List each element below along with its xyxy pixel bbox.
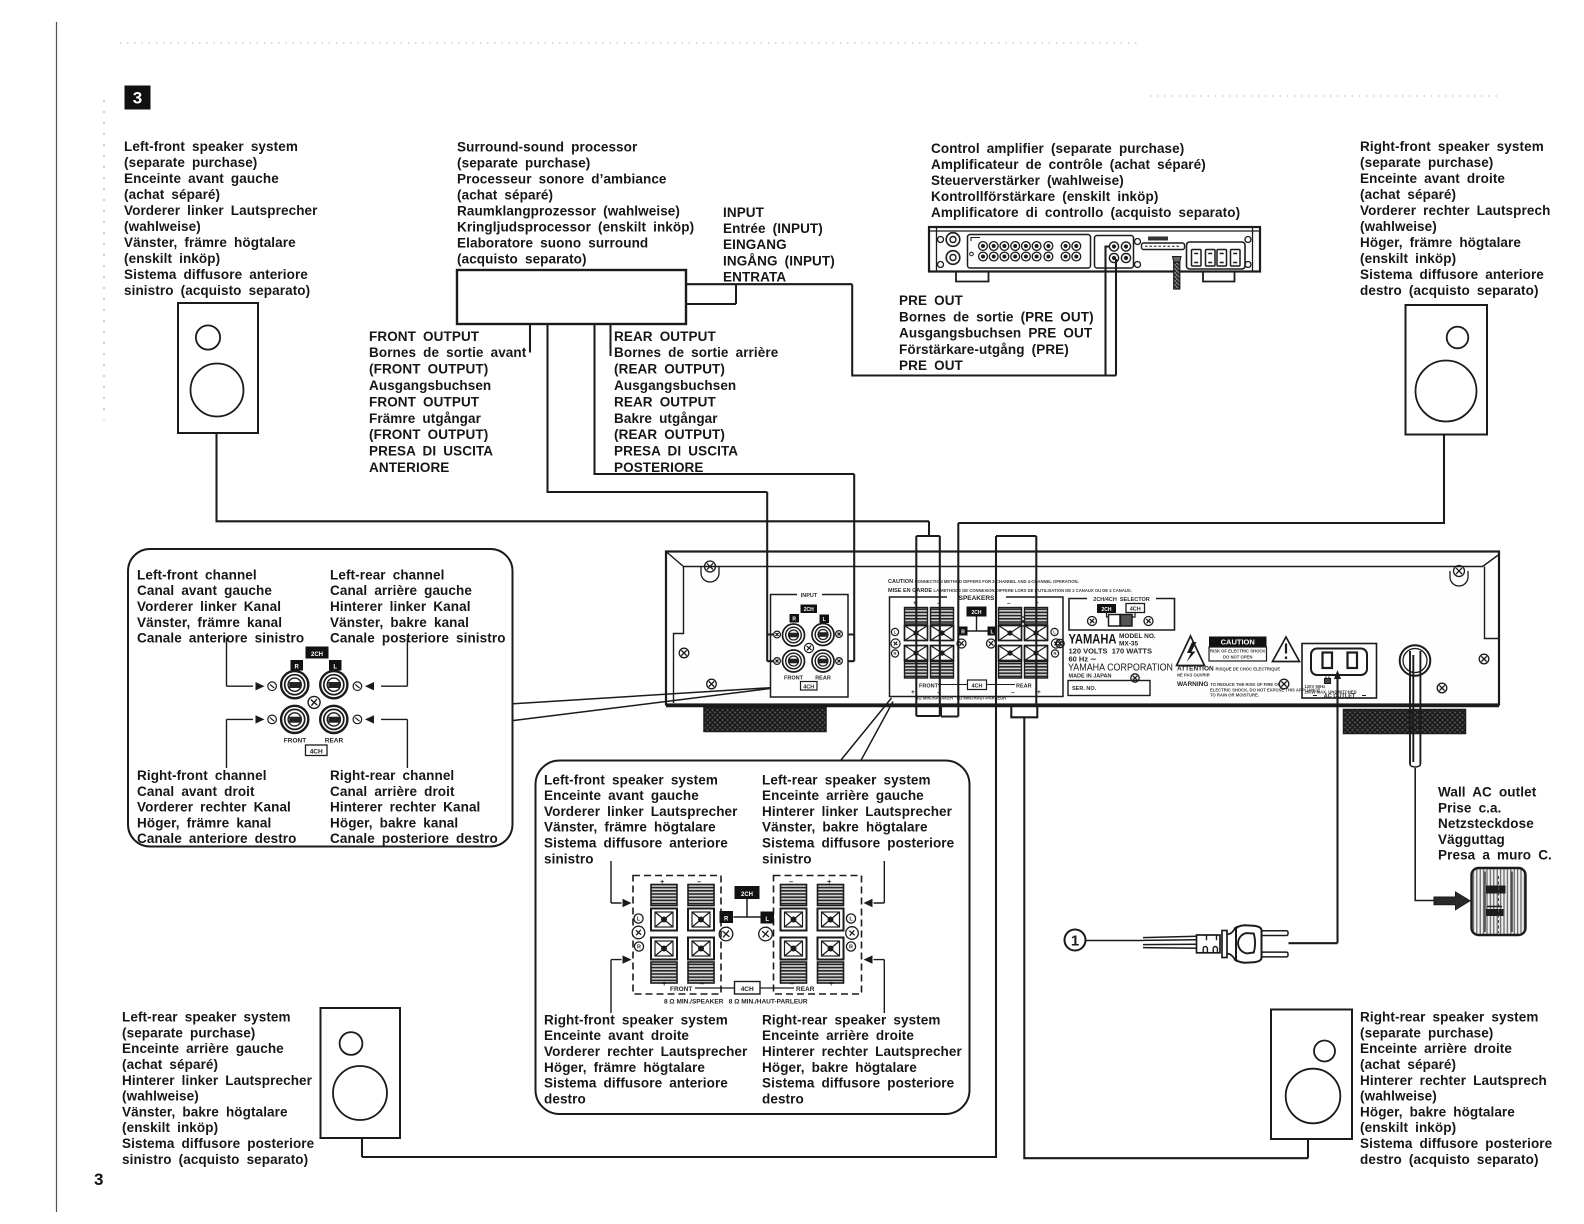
- svg-text:Raumklangprozessor (wahlweise): Raumklangprozessor (wahlweise): [457, 203, 680, 218]
- amp 2CH/4CH selector: [1069, 597, 1175, 630]
- svg-text:Wall AC outlet: Wall AC outlet: [1438, 785, 1537, 800]
- label: left-front speaker system: [124, 139, 318, 298]
- svg-text:RISK OF ELECTRIC SHOCK: RISK OF ELECTRIC SHOCK: [1210, 649, 1265, 654]
- power plug (item 1): [1065, 925, 1289, 962]
- svg-text:(wahlweise): (wahlweise): [1360, 219, 1437, 234]
- svg-text:Hinterer linker Lautsprecher: Hinterer linker Lautsprecher: [762, 804, 953, 819]
- svg-text:PRESA DI USCITA: PRESA DI USCITA: [369, 444, 493, 459]
- svg-text:(achat séparé): (achat séparé): [1360, 1057, 1456, 1072]
- svg-text:(REAR OUTPUT): (REAR OUTPUT): [614, 362, 725, 377]
- svg-text:YAMAHA CORPORATION: YAMAHA CORPORATION: [1068, 662, 1173, 674]
- svg-text:Left-front speaker system: Left-front speaker system: [544, 772, 718, 787]
- control amp AC outlets: [1187, 242, 1246, 269]
- wire: control amp PRE OUT to processor input: [852, 247, 1116, 376]
- svg-text:sinistro (acquisto separato): sinistro (acquisto separato): [122, 1152, 308, 1167]
- wire: REAR OUTPUT label stub: [609, 325, 611, 357]
- svg-text:Hinterer rechter Lautsprecher: Hinterer rechter Lautsprecher: [762, 1044, 963, 1059]
- svg-text:PRESA DI USCITA: PRESA DI USCITA: [614, 444, 738, 459]
- label: INPUT (processor input): [723, 205, 835, 284]
- svg-text:Canale anteriore sinistro: Canale anteriore sinistro: [137, 631, 304, 646]
- svg-text:Enceinte arrière gauche: Enceinte arrière gauche: [762, 788, 924, 803]
- svg-text:ANTERIORE: ANTERIORE: [369, 460, 449, 475]
- svg-text:Ausgangsbuchsen: Ausgangsbuchsen: [369, 378, 491, 393]
- wire: processor rear output to amp input: [595, 325, 855, 662]
- close-up 2CH tag: [306, 647, 329, 659]
- wire: processor front output to amp input: [548, 325, 774, 662]
- svg-text:FRONT: FRONT: [670, 986, 692, 993]
- svg-text:Presa a muro C.: Presa a muro C.: [1438, 848, 1552, 863]
- rear speaker terminals: [999, 608, 1022, 625]
- svg-text:–: –: [700, 979, 704, 988]
- svg-text:(FRONT OUTPUT): (FRONT OUTPUT): [369, 362, 488, 377]
- svg-text:Enceinte avant droite: Enceinte avant droite: [544, 1028, 689, 1043]
- svg-text:Control amplifier (separate pu: Control amplifier (separate purchase): [931, 141, 1184, 156]
- svg-text:MODEL NO.: MODEL NO.: [1119, 633, 1156, 640]
- dashed terminal boxes: [633, 876, 721, 995]
- svg-text:Vorderer linker Lautsprecher: Vorderer linker Lautsprecher: [124, 203, 318, 218]
- svg-text:PRE OUT: PRE OUT: [899, 293, 964, 308]
- svg-text:Bakre utgångar: Bakre utgångar: [614, 411, 718, 426]
- svg-text:MADE IN JAPAN: MADE IN JAPAN: [1069, 674, 1112, 680]
- svg-text:Enceinte arrière droite: Enceinte arrière droite: [762, 1028, 914, 1043]
- svg-text:Bornes de sortie arrière: Bornes de sortie arrière: [614, 345, 779, 360]
- svg-text:Sistema diffusore posteriore: Sistema diffusore posteriore: [762, 836, 955, 851]
- amp feet: [704, 708, 826, 732]
- svg-text:Vänster, bakre kanal: Vänster, bakre kanal: [330, 615, 469, 630]
- svg-text:Höger, bakre högtalare: Höger, bakre högtalare: [1360, 1104, 1515, 1119]
- svg-text:2CH: 2CH: [971, 610, 981, 616]
- svg-text:2CH: 2CH: [741, 892, 753, 898]
- speaker terminals close-up box: [536, 761, 970, 1115]
- svg-text:R: R: [893, 651, 896, 656]
- svg-text:R: R: [792, 617, 796, 623]
- svg-text:–: –: [1007, 600, 1011, 607]
- svg-text:destro: destro: [762, 1091, 804, 1106]
- amp INPUT section: [771, 595, 849, 698]
- svg-text:8 Ω MIN./SPEAKER 8 Ω MIN./HA: 8 Ω MIN./SPEAKER 8 Ω MIN./HAUT-PARLEUR: [664, 998, 808, 1005]
- svg-text:(separate purchase): (separate purchase): [457, 155, 590, 170]
- svg-text:L: L: [765, 917, 769, 923]
- svg-text:L: L: [1053, 630, 1056, 635]
- svg-text:R: R: [637, 945, 641, 951]
- svg-text:(REAR OUTPUT): (REAR OUTPUT): [614, 427, 725, 442]
- svg-text:(separate purchase): (separate purchase): [124, 155, 257, 170]
- svg-text:Sistema diffusore anteriore: Sistema diffusore anteriore: [544, 836, 728, 851]
- svg-text:+: +: [911, 689, 915, 696]
- close-up R/L tags: [291, 660, 304, 671]
- svg-text:4CH: 4CH: [741, 986, 754, 993]
- svg-text:Canal avant droit: Canal avant droit: [137, 784, 255, 799]
- svg-text:NE PAS OUVRIR: NE PAS OUVRIR: [1177, 673, 1210, 678]
- svg-text:Left-front channel: Left-front channel: [137, 567, 257, 582]
- svg-text:Ausgangsbuchsen PRE OUT: Ausgangsbuchsen PRE OUT: [899, 326, 1093, 341]
- svg-text:Amplificatore di controllo (ac: Amplificatore di controllo (acquisto sep…: [931, 205, 1240, 220]
- svg-text:Netzsteckdose: Netzsteckdose: [1438, 816, 1534, 831]
- svg-text:(achat séparé): (achat séparé): [122, 1057, 218, 1072]
- svg-text:(enskilt inköp): (enskilt inköp): [122, 1120, 218, 1135]
- amp SPEAKERS section: [890, 597, 1064, 697]
- svg-text:L: L: [894, 630, 897, 635]
- control amp feet: [956, 272, 1235, 282]
- svg-text:(wahlweise): (wahlweise): [122, 1089, 199, 1104]
- svg-text:Höger, främre kanal: Höger, främre kanal: [137, 815, 271, 830]
- wire: right-front speaker cable: [941, 435, 1444, 717]
- svg-text:REAR: REAR: [1016, 684, 1032, 690]
- svg-text:POSTERIORE: POSTERIORE: [614, 460, 704, 475]
- surround-sound processor box: [457, 270, 686, 324]
- svg-text:Enceinte avant gauche: Enceinte avant gauche: [124, 171, 279, 186]
- svg-text:Enceinte avant droite: Enceinte avant droite: [1360, 171, 1505, 186]
- close-up arrows: [611, 861, 622, 903]
- svg-text:Enceinte avant gauche: Enceinte avant gauche: [544, 788, 699, 803]
- svg-text:Sistema diffusore anteriore: Sistema diffusore anteriore: [124, 267, 308, 282]
- svg-text:L: L: [333, 665, 337, 671]
- control amp screws: [938, 237, 944, 243]
- label: control amplifier: [931, 141, 1240, 220]
- svg-text:Steuerverstärker (wahlweise): Steuerverstärker (wahlweise): [931, 173, 1124, 188]
- svg-text:(achat séparé): (achat séparé): [124, 187, 220, 202]
- svg-text:Canal arrière droit: Canal arrière droit: [330, 784, 455, 799]
- svg-text:Prise c.a.: Prise c.a.: [1438, 800, 1502, 815]
- svg-text:(separate purchase): (separate purchase): [1360, 1025, 1493, 1040]
- svg-text:PRE OUT: PRE OUT: [899, 358, 964, 373]
- svg-text:Höger, bakre högtalare: Höger, bakre högtalare: [762, 1060, 917, 1075]
- svg-text:CAUTION: CAUTION: [1221, 638, 1255, 647]
- control amp jack field: [968, 235, 1091, 269]
- svg-text:SPEAKERS: SPEAKERS: [959, 595, 995, 602]
- svg-text:Vägguttag: Vägguttag: [1438, 832, 1505, 847]
- svg-text:Left-rear speaker system: Left-rear speaker system: [762, 772, 931, 787]
- svg-text:destro: destro: [544, 1091, 586, 1106]
- label: REAR OUTPUT: [614, 329, 779, 475]
- amp branding: [1068, 631, 1173, 696]
- svg-text:4CH: 4CH: [310, 748, 323, 755]
- svg-text:Enceinte arrière gauche: Enceinte arrière gauche: [122, 1041, 284, 1056]
- svg-text:2CH: 2CH: [804, 607, 814, 613]
- svg-text:Processeur sonore d’ambiance: Processeur sonore d’ambiance: [457, 171, 667, 186]
- svg-text:FRONT OUTPUT: FRONT OUTPUT: [369, 394, 480, 409]
- svg-text:REAR OUTPUT: REAR OUTPUT: [614, 329, 716, 344]
- svg-text:R: R: [849, 945, 853, 951]
- wire: plug to amp AC outlet: [1289, 670, 1342, 943]
- amp screws: [705, 561, 716, 572]
- svg-text:Förstärkare-utgång (PRE): Förstärkare-utgång (PRE): [899, 342, 1069, 357]
- svg-text:4CH: 4CH: [971, 683, 982, 689]
- svg-text:Hinterer linker Lautsprecher: Hinterer linker Lautsprecher: [122, 1073, 313, 1088]
- svg-text:FRONT: FRONT: [919, 684, 939, 690]
- right-rear speaker cabinet: [1271, 1010, 1352, 1140]
- svg-text:Canal avant gauche: Canal avant gauche: [137, 583, 272, 598]
- svg-text:sinistro: sinistro: [544, 851, 594, 866]
- svg-text:INPUT: INPUT: [723, 205, 765, 220]
- close-up arrows: [227, 638, 254, 687]
- svg-text:Amplificateur de contrôle (ach: Amplificateur de contrôle (achat séparé): [931, 157, 1206, 172]
- leader lines: input close-up: [514, 688, 771, 721]
- svg-text:2CH/4CH SELECTOR: 2CH/4CH SELECTOR: [1093, 597, 1149, 603]
- right-front speaker cabinet: [1406, 305, 1488, 435]
- svg-text:Höger, främre högtalare: Höger, främre högtalare: [1360, 235, 1521, 250]
- svg-text:Vänster, främre kanal: Vänster, främre kanal: [137, 615, 282, 630]
- svg-text:Right-rear speaker system: Right-rear speaker system: [762, 1012, 940, 1027]
- arrow to wall outlet: [1434, 892, 1470, 910]
- svg-text:R: R: [724, 917, 729, 923]
- left terminal group (front): [651, 885, 677, 906]
- svg-text:–: –: [790, 979, 794, 988]
- close-up RCA jacks: [281, 671, 308, 698]
- close-up 2CH tag: [735, 886, 760, 899]
- svg-text:Canale posteriore sinistro: Canale posteriore sinistro: [330, 631, 506, 646]
- svg-text:Right-front speaker system: Right-front speaker system: [544, 1012, 728, 1027]
- svg-text:destro (acquisto separato): destro (acquisto separato): [1360, 283, 1539, 298]
- svg-text:(acquisto separato): (acquisto separato): [457, 251, 587, 266]
- svg-text:3: 3: [133, 89, 142, 108]
- label: FRONT OUTPUT: [369, 329, 527, 475]
- wire: FRONT OUTPUT label stub: [529, 325, 531, 353]
- svg-text:REAR OUTPUT: REAR OUTPUT: [614, 394, 716, 409]
- svg-text:FRONT: FRONT: [284, 738, 306, 745]
- svg-text:Hinterer linker Kanal: Hinterer linker Kanal: [330, 599, 471, 614]
- input channels close-up box: [128, 549, 513, 847]
- svg-text:(separate purchase): (separate purchase): [122, 1025, 255, 1040]
- svg-text:2CH: 2CH: [1101, 607, 1111, 613]
- svg-text:Hinterer rechter Kanal: Hinterer rechter Kanal: [330, 800, 480, 815]
- svg-text:Sistema diffusore anteriore: Sistema diffusore anteriore: [1360, 267, 1544, 282]
- svg-text:Sistema diffusore posteriore: Sistema diffusore posteriore: [122, 1136, 315, 1151]
- polarity circles: [634, 914, 643, 923]
- caution label cluster: [1177, 636, 1321, 698]
- svg-text:Sistema diffusore anteriore: Sistema diffusore anteriore: [544, 1076, 728, 1091]
- svg-text:Vorderer rechter Lautsprecher: Vorderer rechter Lautsprecher: [544, 1044, 748, 1059]
- wire: processor INPUT pointer bracket: [686, 284, 852, 304]
- svg-text:Left-rear channel: Left-rear channel: [330, 567, 444, 582]
- label: PRE OUT: [899, 293, 1094, 373]
- svg-text:4CH: 4CH: [1130, 607, 1141, 613]
- label: surround-sound processor: [457, 139, 694, 266]
- svg-text:120V 60Hz: 120V 60Hz: [1305, 684, 1326, 689]
- svg-text:destro (acquisto separato): destro (acquisto separato): [1360, 1152, 1539, 1167]
- amp AC outlet: [1302, 644, 1377, 700]
- svg-text:FRONT OUTPUT: FRONT OUTPUT: [369, 329, 480, 344]
- svg-text:Elaboratore suono surround: Elaboratore suono surround: [457, 235, 648, 250]
- svg-text:1: 1: [1071, 933, 1079, 950]
- svg-text:L: L: [990, 630, 993, 636]
- svg-text:TO RAIN OR MOISTURE.: TO RAIN OR MOISTURE.: [1210, 693, 1259, 698]
- svg-text:DO NOT OPEN: DO NOT OPEN: [1223, 655, 1252, 660]
- svg-text:3: 3: [94, 1170, 103, 1189]
- svg-text:REAR: REAR: [815, 676, 831, 682]
- svg-text:Right-rear speaker system: Right-rear speaker system: [1360, 1010, 1538, 1025]
- control amp phono jacks: [946, 233, 960, 247]
- svg-text:ATTENTION RISQUE DE CHOC ELECT: ATTENTION RISQUE DE CHOC ELECTRIQUE: [1177, 666, 1280, 673]
- speakers 2CH/R/L tags: [967, 607, 987, 617]
- svg-text:+: +: [662, 979, 667, 988]
- svg-text:(enskilt inköp): (enskilt inköp): [1360, 251, 1456, 266]
- svg-text:R: R: [295, 665, 300, 671]
- svg-text:Right-front channel: Right-front channel: [137, 768, 267, 783]
- svg-text:Vänster, främre högtalare: Vänster, främre högtalare: [124, 235, 296, 250]
- svg-text:(wahlweise): (wahlweise): [1360, 1089, 1437, 1104]
- svg-text:(enskilt inköp): (enskilt inköp): [1360, 1120, 1456, 1135]
- svg-text:Enceinte arrière droite: Enceinte arrière droite: [1360, 1041, 1512, 1056]
- wire: left-front speaker cable: [217, 433, 940, 716]
- control amp PRE OUT jacks: [1095, 236, 1134, 269]
- svg-text:Vänster, bakre högtalare: Vänster, bakre högtalare: [762, 820, 928, 835]
- svg-text:EINGANG: EINGANG: [723, 237, 787, 252]
- svg-text:Kringljudsprocessor (enskilt i: Kringljudsprocessor (enskilt inköp): [457, 219, 694, 234]
- svg-text:Hinterer rechter Lautsprech: Hinterer rechter Lautsprech: [1360, 1073, 1547, 1088]
- svg-text:4CH: 4CH: [803, 684, 814, 690]
- svg-text:Höger, bakre kanal: Höger, bakre kanal: [330, 815, 458, 830]
- svg-text:Vänster, främre högtalare: Vänster, främre högtalare: [544, 820, 716, 835]
- svg-text:R: R: [1053, 651, 1056, 656]
- wire: right-rear speaker cable: [1011, 536, 1308, 1158]
- control amp vent grille: [1148, 237, 1168, 241]
- svg-text:Bornes de sortie (PRE OUT): Bornes de sortie (PRE OUT): [899, 309, 1094, 324]
- section number 3 badge: [125, 86, 151, 110]
- svg-text:(achat séparé): (achat séparé): [1360, 187, 1456, 202]
- label: wall AC outlet: [1438, 785, 1552, 863]
- leader lines: speaker-terminal close-up: [841, 698, 893, 760]
- main amp power cord: [1400, 645, 1434, 900]
- control amplifier rear panel: [929, 227, 1260, 289]
- svg-text:(achat séparé): (achat séparé): [457, 187, 553, 202]
- svg-text:+: +: [1037, 689, 1041, 696]
- right terminal group (rear): [781, 885, 807, 906]
- svg-text:Entrée (INPUT): Entrée (INPUT): [723, 221, 823, 236]
- svg-text:Vorderer linker Kanal: Vorderer linker Kanal: [137, 599, 281, 614]
- svg-text:–: –: [1011, 689, 1015, 696]
- label: right-front speaker system: [1360, 139, 1550, 298]
- svg-text:Höger, främre högtalare: Höger, främre högtalare: [544, 1060, 705, 1075]
- label: right-rear speaker system: [1360, 1010, 1553, 1167]
- svg-text:L: L: [823, 617, 826, 623]
- svg-text:Left-rear speaker system: Left-rear speaker system: [122, 1010, 291, 1025]
- svg-text:Canale anteriore destro: Canale anteriore destro: [137, 831, 297, 846]
- svg-text:Canale posteriore destro: Canale posteriore destro: [330, 831, 498, 846]
- svg-text:sinistro: sinistro: [762, 851, 812, 866]
- terminal polarity marks: [891, 628, 898, 635]
- svg-text:YAMAHA: YAMAHA: [1069, 631, 1117, 647]
- svg-text:Vänster, bakre högtalare: Vänster, bakre högtalare: [122, 1104, 288, 1119]
- svg-text:INGÅNG (INPUT): INGÅNG (INPUT): [723, 253, 835, 268]
- left-front speaker cabinet: [178, 303, 258, 433]
- svg-text:Left-front speaker system: Left-front speaker system: [124, 139, 298, 154]
- svg-text:(enskilt inköp): (enskilt inköp): [124, 251, 220, 266]
- svg-text:Vorderer rechter Lautsprech: Vorderer rechter Lautsprech: [1360, 203, 1550, 218]
- svg-text:R: R: [961, 630, 965, 636]
- svg-text:+: +: [829, 979, 834, 988]
- svg-text:FRONT: FRONT: [784, 676, 804, 682]
- svg-text:Ausgangsbuchsen: Ausgangsbuchsen: [614, 378, 736, 393]
- left-rear speaker cabinet: [321, 1008, 401, 1138]
- svg-text:Främre utgångar: Främre utgångar: [369, 411, 482, 426]
- svg-text:(FRONT OUTPUT): (FRONT OUTPUT): [369, 427, 488, 442]
- svg-text:Right-rear channel: Right-rear channel: [330, 768, 454, 783]
- svg-text:Kontrollförstärkare (enskilt i: Kontrollförstärkare (enskilt inköp): [931, 189, 1158, 204]
- svg-text:SER. NO.: SER. NO.: [1072, 686, 1097, 692]
- svg-text:REAR: REAR: [796, 986, 815, 993]
- wire: left-rear speaker cable: [362, 536, 1036, 1157]
- svg-text:Bornes de sortie avant: Bornes de sortie avant: [369, 345, 527, 360]
- svg-text:Canal arrière gauche: Canal arrière gauche: [330, 583, 472, 598]
- main amplifier MX-35 rear panel: [666, 552, 1499, 734]
- svg-text:Surround-sound processor: Surround-sound processor: [457, 139, 638, 154]
- svg-text:2CH: 2CH: [311, 652, 323, 658]
- control amp power cord: [1173, 257, 1182, 263]
- svg-text:ENTRATA: ENTRATA: [723, 269, 786, 284]
- svg-text:Sistema diffusore posteriore: Sistema diffusore posteriore: [762, 1076, 955, 1091]
- svg-text:sinistro (acquisto separato): sinistro (acquisto separato): [124, 283, 310, 298]
- svg-text:Vorderer rechter Kanal: Vorderer rechter Kanal: [137, 800, 291, 815]
- svg-text:(separate purchase): (separate purchase): [1360, 155, 1493, 170]
- front speaker terminals: [905, 608, 928, 625]
- wall AC outlet: [1472, 868, 1526, 935]
- svg-text:(wahlweise): (wahlweise): [124, 219, 201, 234]
- svg-text:INPUT: INPUT: [801, 593, 818, 599]
- svg-text:Right-front speaker system: Right-front speaker system: [1360, 139, 1544, 154]
- label: left-rear speaker system: [122, 1010, 315, 1167]
- svg-text:8Ω MIN./SPEAKER 8Ω MIN./HAUT: 8Ω MIN./SPEAKER 8Ω MIN./HAUT-PARLEUR: [916, 696, 1006, 701]
- svg-text:Vorderer linker Lautsprecher: Vorderer linker Lautsprecher: [544, 804, 738, 819]
- svg-text:AC OUTLET: AC OUTLET: [1324, 694, 1356, 700]
- svg-text:REAR: REAR: [325, 738, 344, 745]
- svg-text:Sistema diffusore posteriore: Sistema diffusore posteriore: [1360, 1136, 1553, 1151]
